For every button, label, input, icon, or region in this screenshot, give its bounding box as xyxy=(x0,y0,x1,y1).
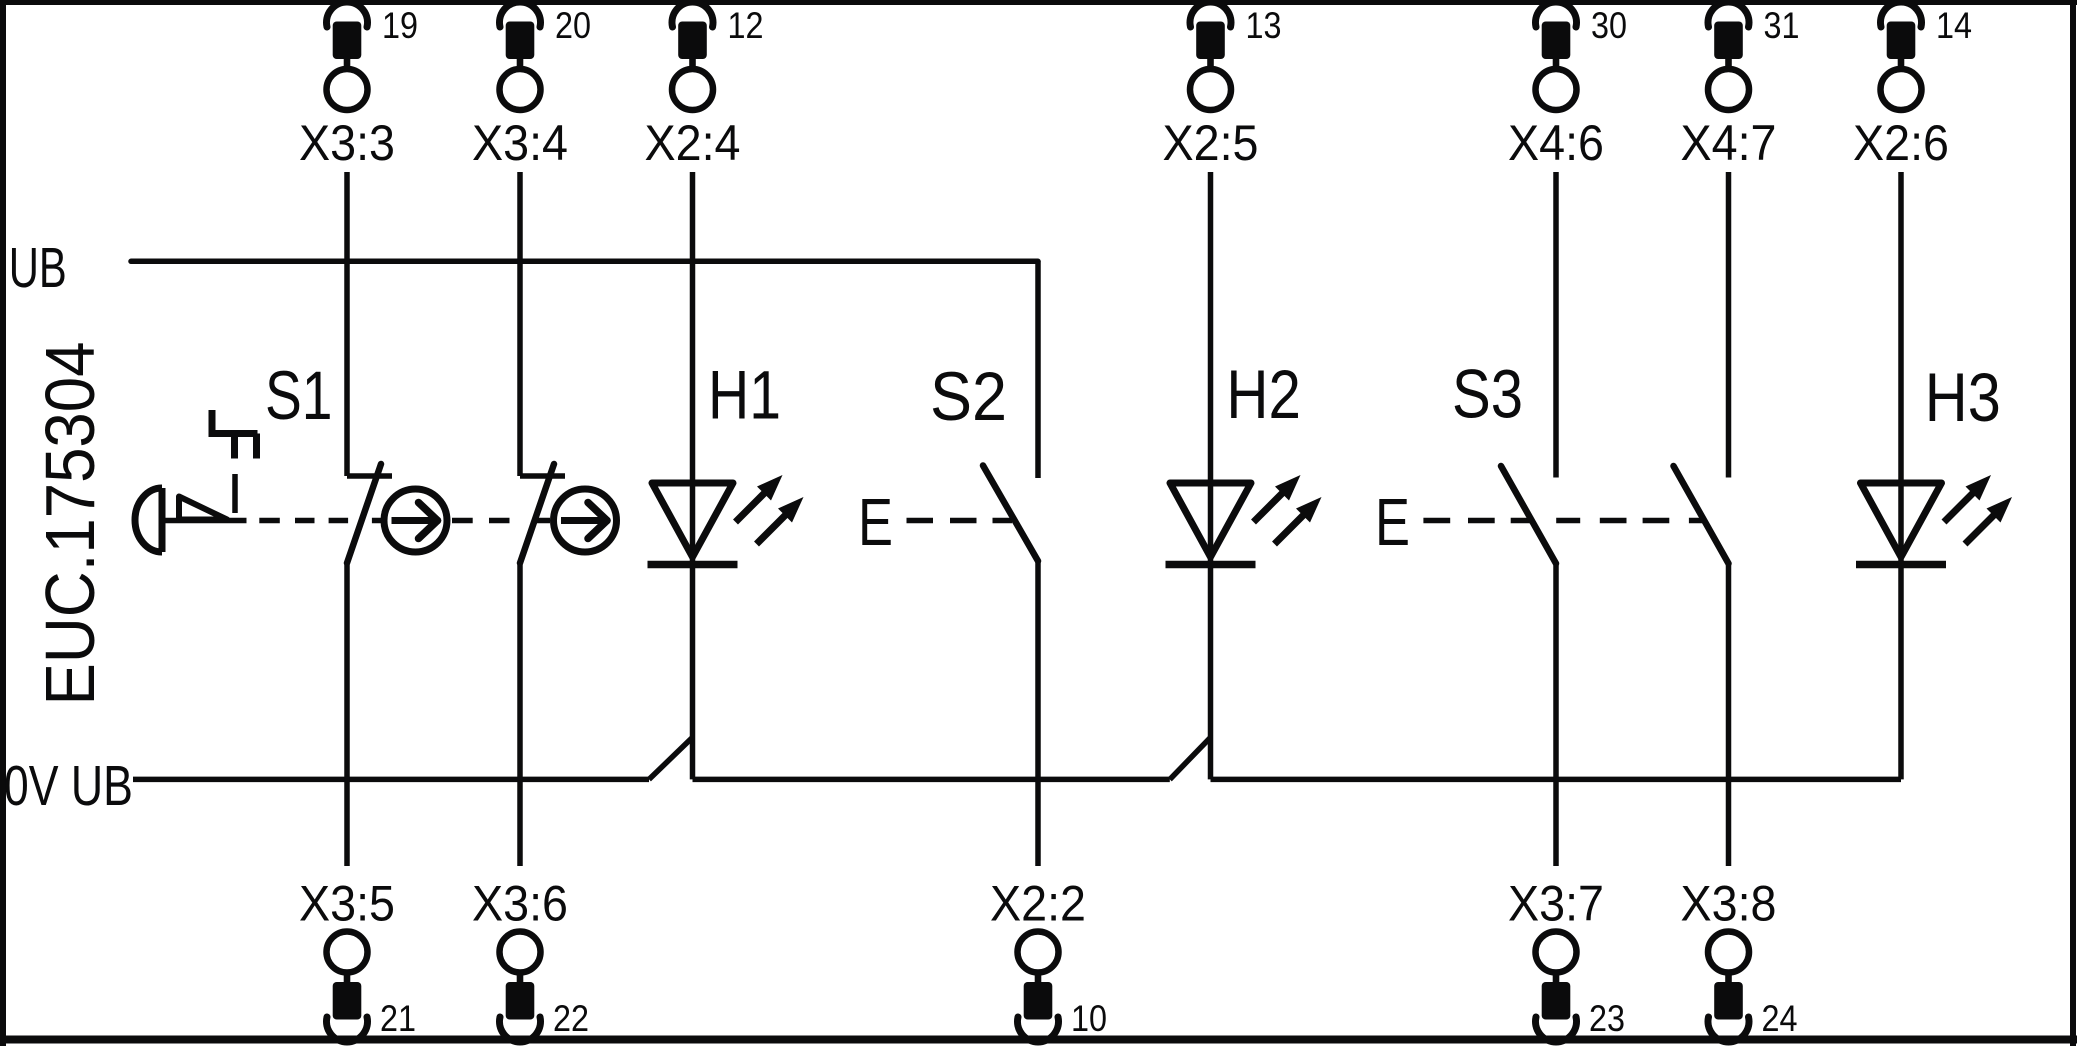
circle-arrow actuation symbol on S1 contact 2 xyxy=(554,489,617,552)
svg-text:23: 23 xyxy=(1589,998,1625,1039)
svg-text:20: 20 xyxy=(555,5,591,46)
svg-text:X2:2: X2:2 xyxy=(990,876,1086,932)
svg-text:X4:7: X4:7 xyxy=(1681,115,1777,171)
wire X3:4 down to S1 contact 2 xyxy=(517,172,523,476)
actuator S1 latch symbol xyxy=(212,410,258,459)
LED H3 xyxy=(1856,475,2012,565)
svg-text:H3: H3 xyxy=(1925,359,2001,436)
terminal X4:6 plug pin 30 (top) xyxy=(1508,2,1627,171)
LED H2 xyxy=(1166,475,1322,565)
wire 0V UB bus left segment xyxy=(133,777,649,783)
svg-text:X3:3: X3:3 xyxy=(299,115,395,171)
svg-text:31: 31 xyxy=(1764,5,1800,46)
actuator S1 mushroom head xyxy=(135,488,247,552)
terminal X2:4 plug pin 12 (top) xyxy=(645,2,764,171)
svg-text:E: E xyxy=(858,485,893,560)
svg-text:X3:5: X3:5 xyxy=(299,876,395,932)
terminal X2:2 plug pin 10 (bottom) xyxy=(990,876,1107,1043)
wire 0V UB joint diagonal at H1 xyxy=(649,737,693,779)
mechanical link dashes S1 to contact 1 xyxy=(259,518,280,524)
switch S1 contact 2 (NC) xyxy=(520,464,565,563)
switch S2 contact (NO) xyxy=(983,466,1038,562)
wire S1 contact 2 down to X3:6 xyxy=(517,563,523,866)
wire X4:6 down to S3 contact 1 xyxy=(1553,172,1559,478)
terminal X3:5 plug pin 21 (bottom) xyxy=(299,876,416,1042)
wire 0V UB bus right segment xyxy=(1211,777,1902,783)
terminal X3:6 plug pin 22 (bottom) xyxy=(472,876,589,1043)
switch S3 contact 2 (NO) xyxy=(1674,466,1729,564)
svg-text:H1: H1 xyxy=(708,357,781,434)
wire X2:5 through H2 to 0V UB xyxy=(1208,172,1214,779)
wire 0V UB joint diagonal at H2 xyxy=(1170,737,1211,779)
svg-text:S1: S1 xyxy=(265,357,333,434)
wire UB bus xyxy=(131,259,1038,265)
svg-text:21: 21 xyxy=(380,998,416,1039)
switch S1 contact 1 (NC) xyxy=(347,464,392,563)
wire 0V UB bus middle segment xyxy=(693,777,1170,783)
wire X2:4 through H1 to 0V UB xyxy=(690,172,696,779)
svg-text:X3:4: X3:4 xyxy=(472,115,568,171)
mechanical link dashes S3 xyxy=(1423,518,1450,524)
wire UB down to S2 contact xyxy=(1035,261,1041,478)
svg-text:H2: H2 xyxy=(1226,356,1301,433)
wire X4:7 down to S3 contact 2 xyxy=(1726,172,1732,478)
svg-text:30: 30 xyxy=(1591,5,1627,46)
svg-text:22: 22 xyxy=(553,998,589,1039)
svg-text:19: 19 xyxy=(382,5,418,46)
svg-text:E: E xyxy=(1375,485,1410,560)
svg-text:S2: S2 xyxy=(930,358,1007,435)
actuator S1 mechanical link (vertical dash) xyxy=(232,474,238,513)
svg-text:X3:8: X3:8 xyxy=(1681,876,1777,932)
svg-text:UB: UB xyxy=(9,236,67,300)
svg-text:EUC.175304: EUC.175304 xyxy=(31,342,109,706)
svg-text:0V UB: 0V UB xyxy=(4,754,133,818)
svg-text:X4:6: X4:6 xyxy=(1508,115,1604,171)
wire S1 contact 1 down to X3:5 xyxy=(344,563,350,866)
svg-text:X2:5: X2:5 xyxy=(1163,115,1259,171)
mechanical link dashes S1 contact 1 to contact 2 xyxy=(452,518,473,524)
terminal X2:5 plug pin 13 (top) xyxy=(1163,2,1282,171)
actuator S1 reset triangle xyxy=(179,497,227,520)
svg-text:X2:4: X2:4 xyxy=(645,115,741,171)
svg-text:24: 24 xyxy=(1762,998,1798,1039)
wire X3:3 down to S1 contact 1 xyxy=(344,172,350,476)
svg-text:S3: S3 xyxy=(1452,356,1523,433)
wire S3 contact 2 down to X3:8 xyxy=(1726,564,1732,867)
terminal X3:3 plug pin 19 (top) xyxy=(299,2,418,171)
switch S3 contact 1 (NO) xyxy=(1501,466,1556,564)
wire X2:6 through H3 to 0V UB xyxy=(1898,172,1904,779)
svg-text:12: 12 xyxy=(728,5,764,46)
svg-text:X2:6: X2:6 xyxy=(1853,115,1949,171)
svg-text:14: 14 xyxy=(1936,5,1972,46)
terminal X3:7 plug pin 23 (bottom) xyxy=(1508,876,1625,1043)
svg-text:X3:7: X3:7 xyxy=(1508,876,1604,932)
wire S2 contact down to X2:2 xyxy=(1035,561,1041,866)
wire S3 contact 1 down to X3:7 xyxy=(1553,564,1559,867)
terminal X3:4 plug pin 20 (top) xyxy=(472,2,591,171)
circle-arrow actuation symbol on S1 contact 1 xyxy=(384,489,447,552)
svg-text:13: 13 xyxy=(1246,5,1282,46)
terminal X4:7 plug pin 31 (top) xyxy=(1681,2,1800,171)
terminal X3:8 plug pin 24 (bottom) xyxy=(1681,876,1798,1043)
svg-text:X3:6: X3:6 xyxy=(472,876,568,932)
svg-text:10: 10 xyxy=(1071,998,1107,1039)
mechanical link dashes E to S2 contact xyxy=(907,518,934,524)
LED H1 xyxy=(648,475,804,565)
terminal X2:6 plug pin 14 (top) xyxy=(1853,2,1972,171)
